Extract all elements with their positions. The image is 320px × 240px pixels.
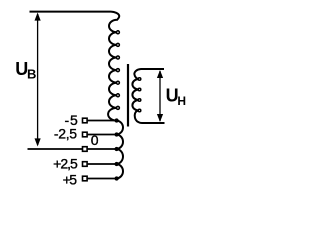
wire tap 0 (left rail) <box>28 148 83 150</box>
winding L2 secondary <box>132 69 164 123</box>
winding L1 primary (autotransformer) <box>108 12 119 121</box>
winding cusp knots <box>115 31 141 180</box>
winding tap loops <box>116 121 123 179</box>
wire tap 0 (to winding) <box>88 148 116 150</box>
terminal +5 <box>83 176 88 181</box>
core <box>127 64 129 127</box>
dimension Uн arrowhead up <box>157 70 163 78</box>
dimension Uв line <box>37 14 39 145</box>
terminal 0 <box>83 147 88 152</box>
wire tap +2,5 <box>88 163 116 165</box>
svg-text:H: H <box>177 94 186 108</box>
svg-text:+2,5: +2,5 <box>53 155 78 171</box>
wire tap +5 <box>88 178 116 180</box>
terminal +2,5 <box>83 162 88 167</box>
svg-text:0: 0 <box>91 132 99 148</box>
terminal -5 <box>83 118 88 123</box>
svg-text:B: B <box>27 67 36 82</box>
svg-text:+5: +5 <box>63 171 78 187</box>
wire tap -5 <box>88 120 116 122</box>
terminal -2,5 <box>83 132 88 137</box>
dimension Uв arrowhead up <box>35 13 41 21</box>
dimension Uн line <box>159 71 161 121</box>
dimension Uв arrowhead down <box>35 138 41 146</box>
svg-text:-2,5: -2,5 <box>54 126 77 142</box>
wire top rail <box>30 11 112 13</box>
wire tap -2,5 <box>88 134 116 136</box>
dimension Uн arrowhead down <box>157 114 163 122</box>
